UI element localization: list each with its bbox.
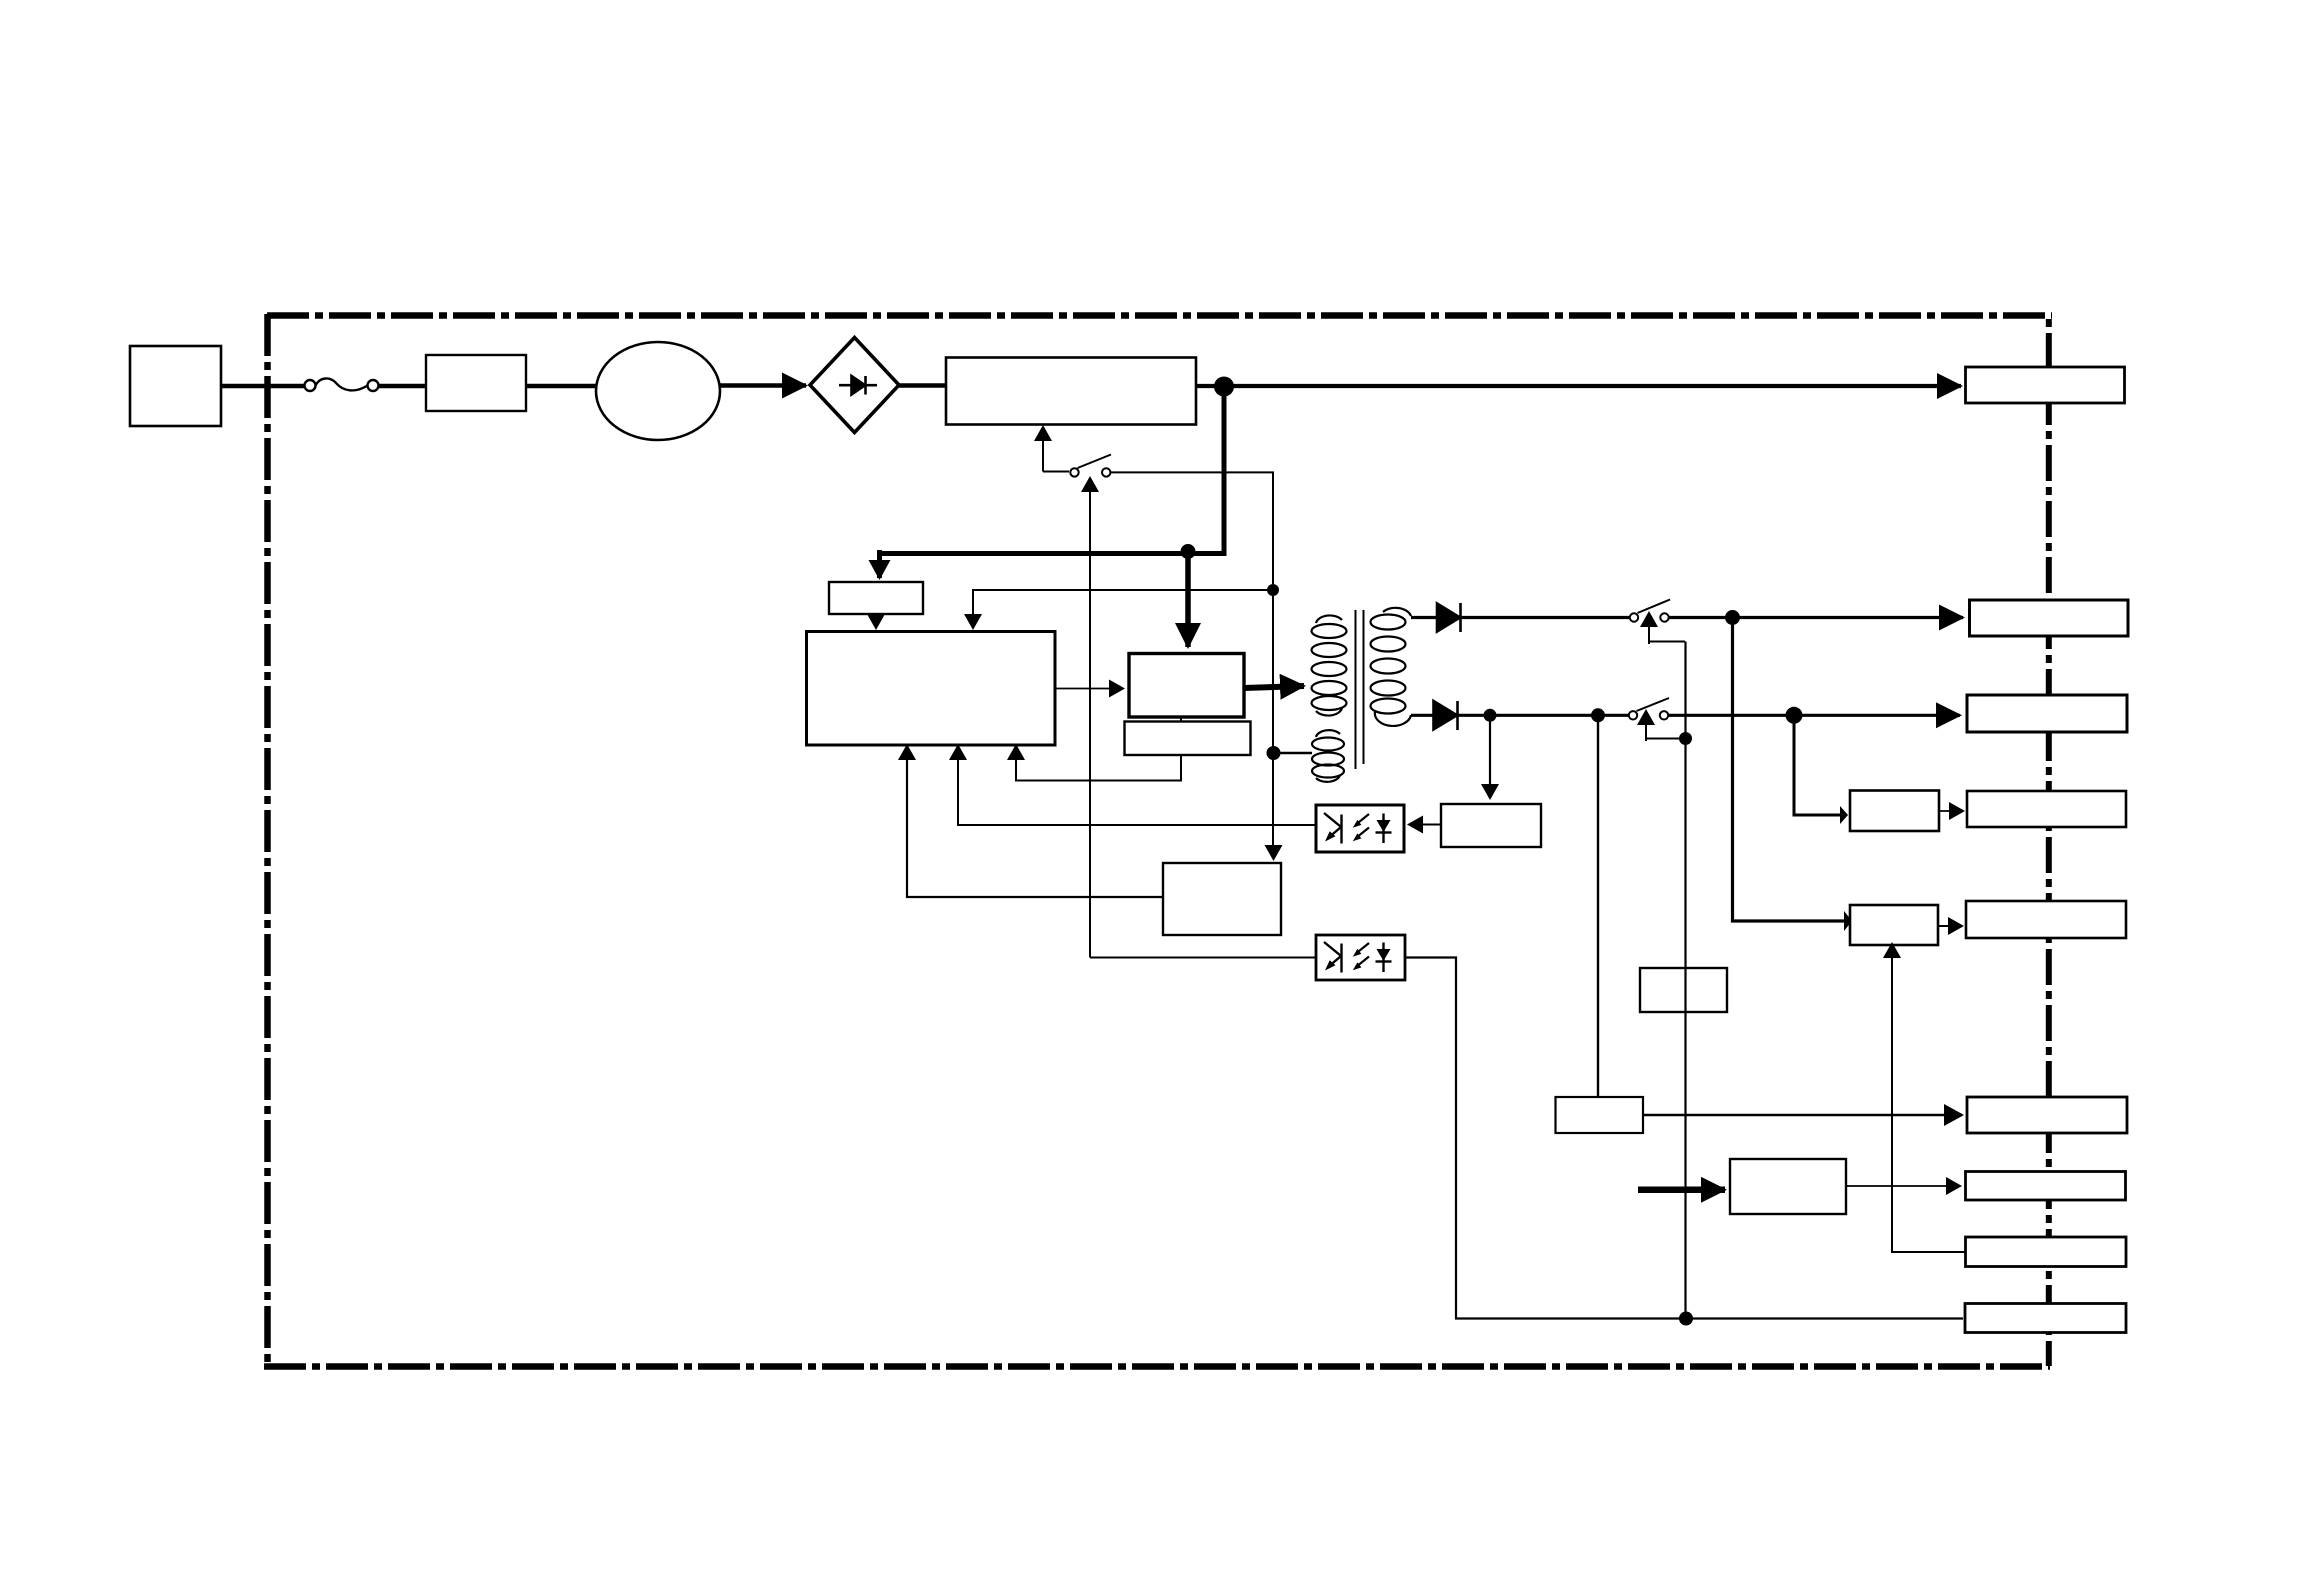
S3 control arrow and wire <box>1646 738 1682 740</box>
thick arrow down into driver block <box>1185 552 1191 647</box>
output block row1 <box>1970 600 2129 636</box>
wire plug to fuse <box>221 384 305 389</box>
transformer T1 primary winding <box>1312 615 1347 715</box>
transformer auxiliary winding <box>1312 730 1344 782</box>
node aux winding tap <box>1267 746 1281 760</box>
wire PC2 input from S1 control line <box>1090 957 1316 959</box>
relay switch S3 <box>1629 698 1669 720</box>
S1 control arrow from below <box>1089 478 1091 958</box>
wire aux converter to output row7 <box>1846 1185 1960 1187</box>
thick branch down from B+ node <box>882 391 1224 554</box>
wire row2 node down to regulator A <box>1794 715 1840 815</box>
wire row1 node down to regulator B <box>1733 618 1845 922</box>
main B+ wire to output <box>1196 384 1961 388</box>
feedback opto1 to PWM <box>958 760 1316 825</box>
output block row5 <box>1966 901 2126 938</box>
bridge rectifier diode symbol <box>839 376 877 395</box>
output block bottom (standby out) <box>1965 1304 2126 1333</box>
feedback sub block to PWM <box>1016 755 1181 781</box>
noise filter block <box>426 355 526 411</box>
error amp block <box>1163 863 1281 935</box>
output block row4 <box>1967 791 2126 827</box>
wire S1 to standby line <box>1111 472 1274 584</box>
node on standby line <box>1267 584 1279 596</box>
output block row2 <box>1967 695 2127 732</box>
secondary wire bottom (row 2) <box>1411 714 1630 717</box>
output block B+ (top right) <box>1966 367 2125 403</box>
node row2 to detector <box>1484 709 1497 722</box>
wire bridge to smoothing block <box>899 383 946 388</box>
junction node on thick branch <box>1181 544 1196 559</box>
wire low-volt block to output row6 <box>1643 1114 1962 1116</box>
wire PC2 output to bottom rail <box>1405 958 1963 1319</box>
wire fuse to filter block <box>378 384 426 389</box>
wire filter block to line filter <box>526 384 598 389</box>
wire PWM to driver <box>1055 688 1123 690</box>
diode D2 <box>1437 603 1461 632</box>
fuse F1 <box>305 378 379 391</box>
AC plug block <box>130 346 221 426</box>
opto coupler PC1 <box>1316 805 1404 852</box>
control rail vertical <box>1684 642 1686 1319</box>
wire regulator A to output row4 <box>1939 810 1963 812</box>
low-volt block (from row2 node) <box>1556 1097 1644 1133</box>
voltage detector block right of PC1 <box>1441 804 1541 847</box>
relay switch S2 <box>1630 600 1670 622</box>
thick drive arrow into transformer primary <box>1244 686 1304 688</box>
wire S2 to output row1 <box>1669 616 1964 619</box>
arrow detector into PC1 <box>1409 824 1441 826</box>
regulator B block <box>1850 905 1938 945</box>
wire node down to low-volt block <box>1597 715 1599 1097</box>
transformer core <box>1356 610 1364 769</box>
node bottom rail <box>1679 1312 1693 1326</box>
arrow startup block to PWM block <box>875 614 877 628</box>
regulator A block <box>1850 791 1939 832</box>
relay switch S1 <box>1043 455 1111 477</box>
wire S3 to output row2 <box>1668 714 1960 717</box>
wire regulator B to output row5 <box>1938 925 1962 927</box>
relay switch S1 arrow up into smoothing block <box>1042 447 1044 472</box>
sub block under driver <box>1125 722 1251 756</box>
standby line down to error amp <box>1272 596 1274 846</box>
smoothing / rectifier circuit block <box>946 358 1196 425</box>
opto coupler PC2 <box>1316 935 1405 980</box>
S2 control arrow and wire <box>1649 641 1685 643</box>
PWM control block <box>807 632 1056 746</box>
output block row7 <box>1966 1172 2126 1201</box>
secondary wire top (row 1) <box>1411 616 1630 619</box>
external input thick arrow <box>1638 1187 1725 1194</box>
wire line filter to bridge rectifier <box>720 383 806 388</box>
diode D3 <box>1434 701 1458 730</box>
wire node to aux winding <box>1274 752 1313 754</box>
startup block <box>829 582 923 614</box>
stub driver to sub block <box>1180 717 1182 722</box>
junction node B+ <box>1214 377 1234 397</box>
node row2 to 5V reg line <box>1591 708 1605 722</box>
output block row8 <box>1966 1237 2127 1267</box>
supply rail to regulator B bottom <box>1892 954 1965 1252</box>
aux converter block <box>1730 1159 1846 1214</box>
node row1 <box>1725 610 1740 625</box>
transformer secondary winding <box>1371 608 1412 726</box>
pass-through block on control rail <box>1640 968 1727 1012</box>
output block row6 <box>1967 1097 2127 1133</box>
feedback error amp to PWM <box>907 760 1163 897</box>
arrow node down into detector block <box>1489 715 1491 798</box>
line filter (ellipse) <box>596 342 720 440</box>
driver block <box>1129 654 1244 718</box>
node S2/S3 control rail <box>1679 732 1692 745</box>
arrow down into startup block <box>877 550 882 578</box>
insulation boundary dash-dot frame <box>264 314 2052 1368</box>
wire standby node to PWM block top <box>973 590 1273 613</box>
bridge rectifier diamond <box>810 338 899 433</box>
node row2 out <box>1786 707 1803 724</box>
